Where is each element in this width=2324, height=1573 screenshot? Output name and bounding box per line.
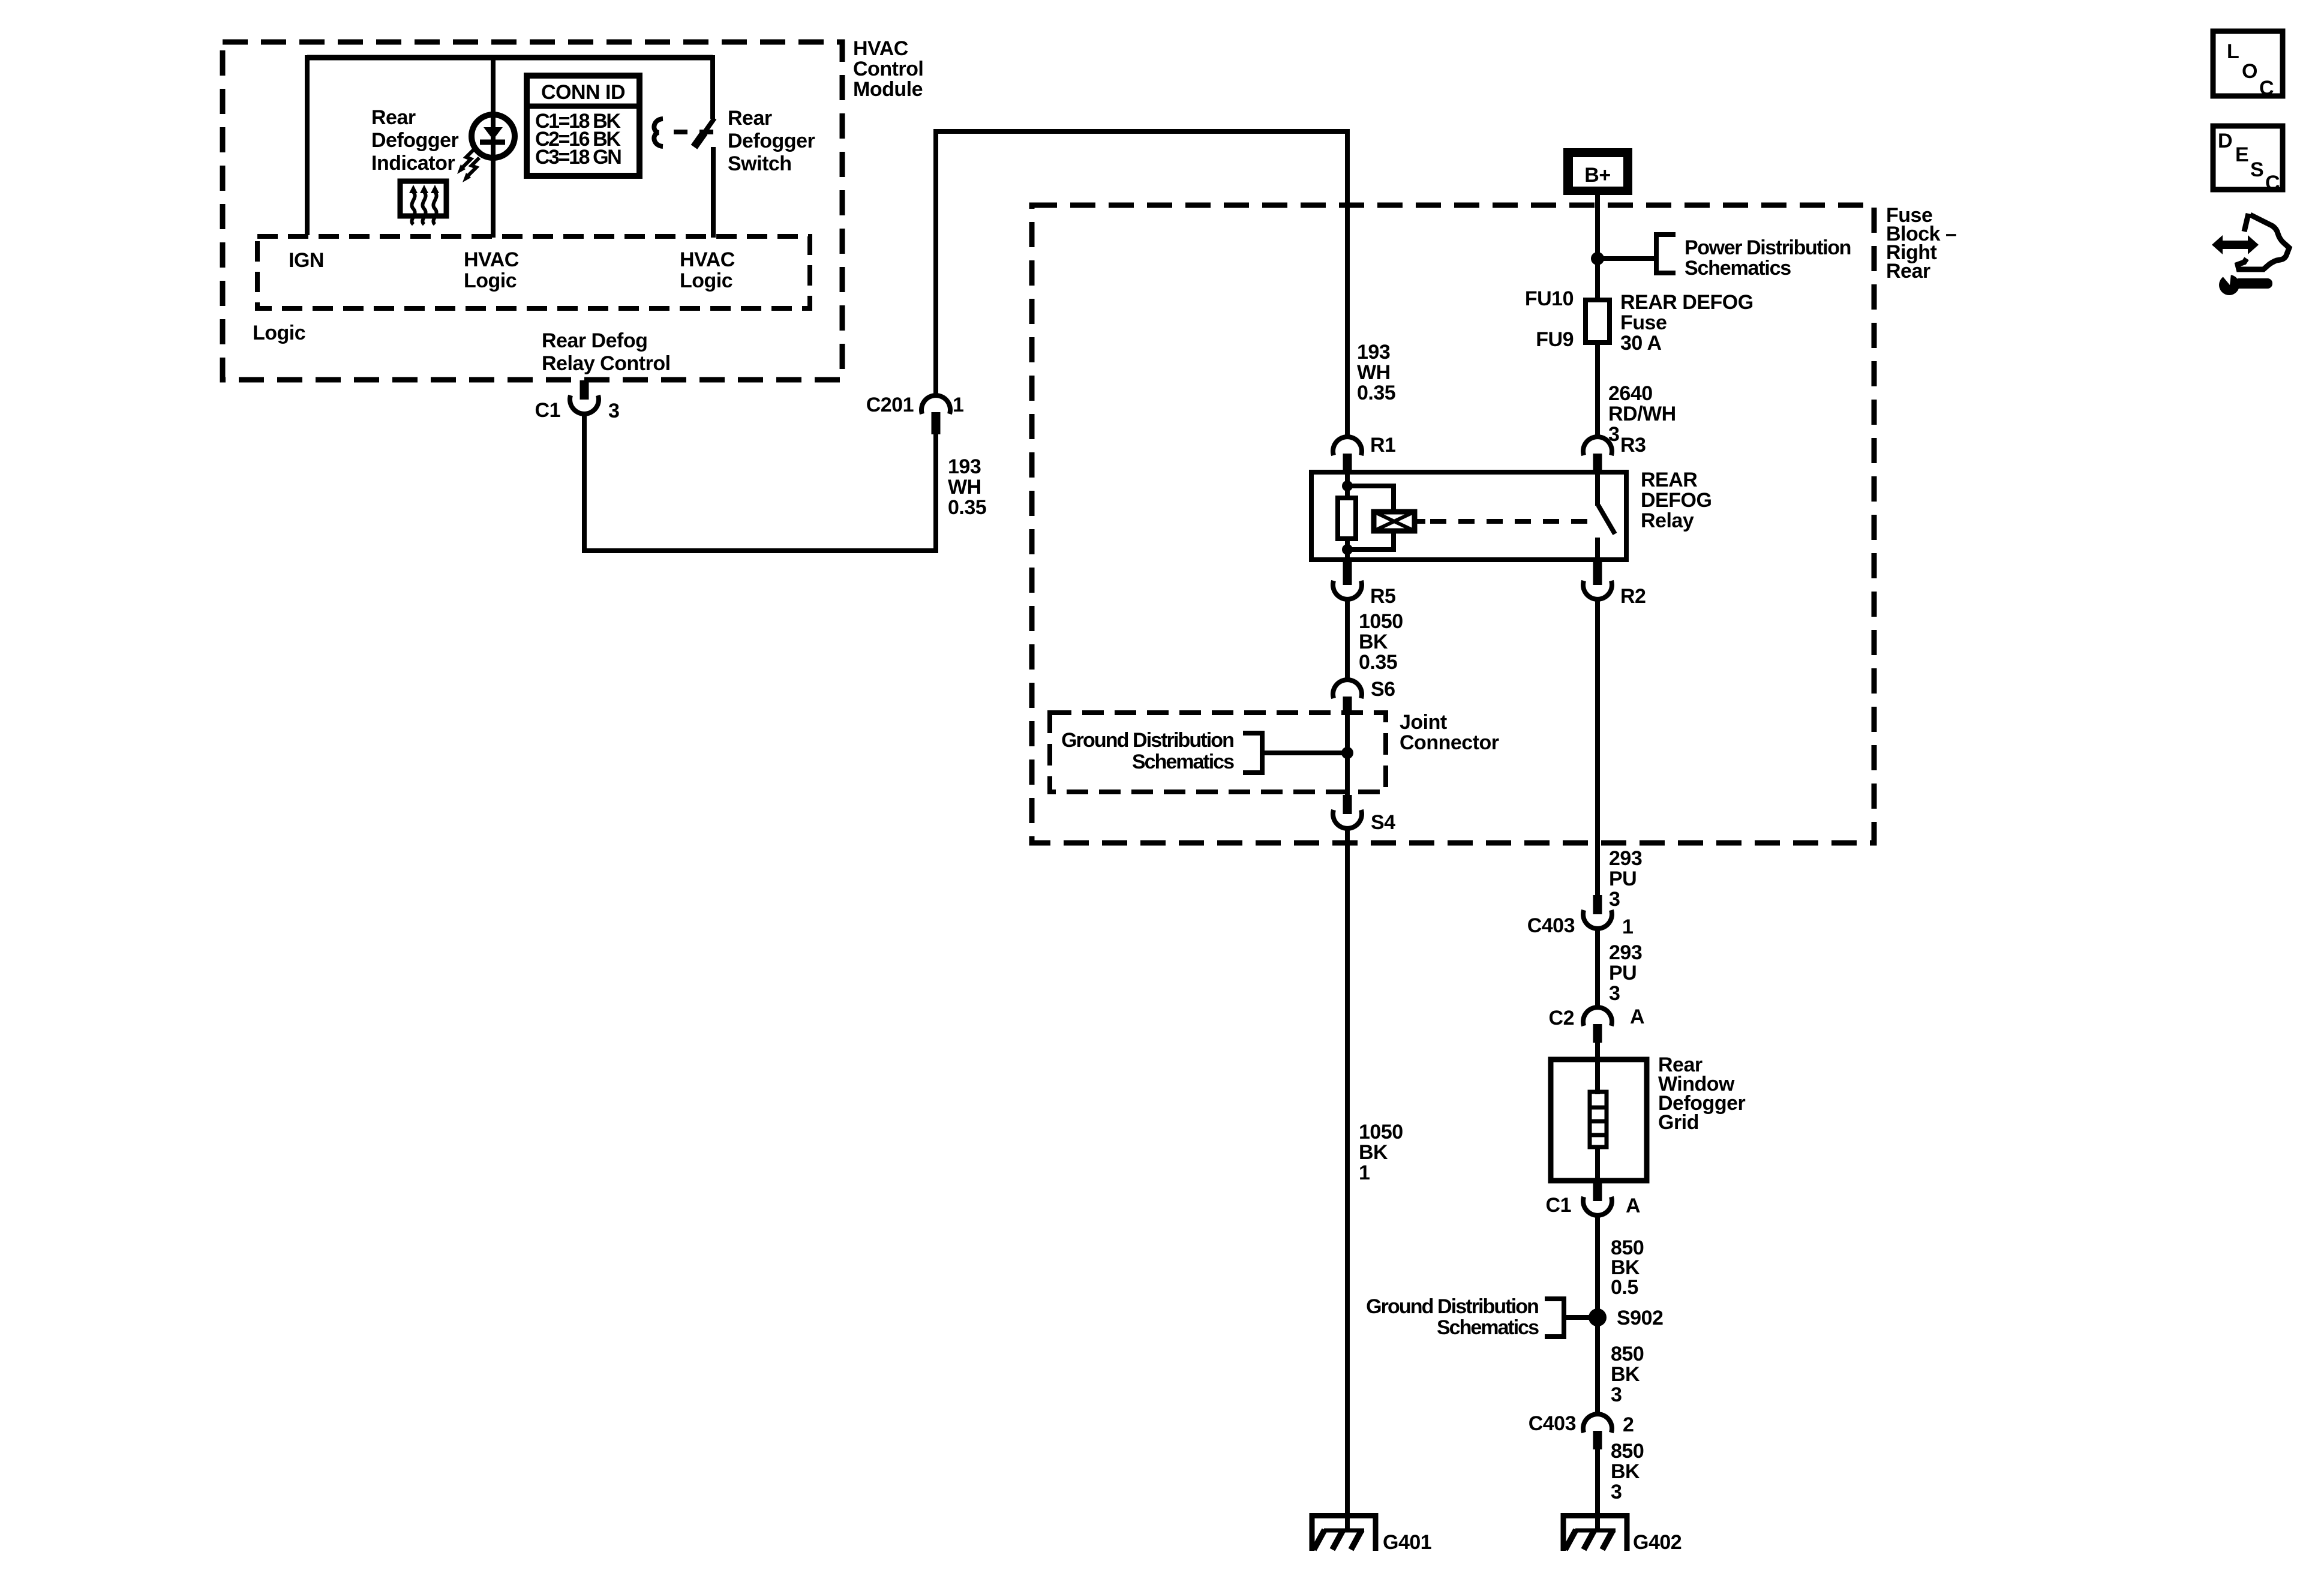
- svg-text:S: S: [2250, 158, 2263, 181]
- connector S4: [1343, 795, 1352, 814]
- svg-text:R3: R3: [1620, 434, 1646, 457]
- switch lever: [703, 118, 714, 134]
- svg-text:IGN: IGN: [289, 249, 324, 272]
- svg-text:BK: BK: [1611, 1460, 1640, 1483]
- svg-text:E: E: [2235, 143, 2248, 166]
- wire: top bus inside module: [307, 55, 713, 61]
- HVAC Control Module dashed box: [223, 42, 842, 380]
- connector C403 pin 1: [1593, 895, 1602, 914]
- defogger grid icon: [400, 181, 446, 216]
- svg-text:G402: G402: [1633, 1531, 1682, 1554]
- wire: 193 WH from C1: [582, 414, 587, 551]
- svg-text:A: A: [1630, 1005, 1644, 1028]
- svg-text:Relay Control: Relay Control: [542, 352, 671, 375]
- svg-text:1: 1: [1622, 915, 1633, 938]
- svg-text:HVAC: HVAC: [680, 248, 735, 271]
- CONN ID table: [527, 76, 639, 176]
- coil parallel branch wires: [1347, 484, 1394, 488]
- svg-text:1: 1: [953, 394, 963, 416]
- svg-text:REAR: REAR: [1641, 469, 1697, 491]
- wire: B+ down to fuse: [1595, 195, 1600, 300]
- svg-text:Defogger: Defogger: [371, 129, 459, 152]
- svg-text:FU10: FU10: [1525, 287, 1574, 310]
- LOC icon: [2213, 31, 2283, 96]
- connector R1: [1333, 437, 1362, 455]
- svg-text:C1: C1: [1546, 1194, 1571, 1217]
- svg-text:HVAC: HVAC: [464, 248, 519, 271]
- svg-text:PU: PU: [1609, 867, 1637, 890]
- relay contact arm: [1595, 473, 1600, 506]
- DESC icon: [2213, 126, 2283, 190]
- svg-text:DEFOG: DEFOG: [1641, 489, 1712, 512]
- svg-text:L: L: [2227, 40, 2239, 63]
- wire: fuse to R3: [1595, 343, 1600, 438]
- svg-text:Ground Distribution: Ground Distribution: [1366, 1295, 1538, 1318]
- svg-text:B+: B+: [1584, 164, 1610, 187]
- svg-text:BK: BK: [1359, 1141, 1388, 1164]
- svg-text:Logic: Logic: [253, 322, 305, 344]
- svg-text:S902: S902: [1617, 1307, 1663, 1329]
- wire: S902 to C403 pin 2: [1595, 1317, 1600, 1415]
- svg-text:Control: Control: [853, 58, 923, 80]
- wire: S4 down to G401: [1345, 828, 1350, 1531]
- svg-text:HVAC: HVAC: [853, 37, 908, 60]
- svg-text:Rear: Rear: [728, 107, 772, 130]
- svg-text:3: 3: [608, 400, 619, 422]
- svg-text:O: O: [2242, 60, 2257, 83]
- svg-text:293: 293: [1609, 941, 1642, 964]
- svg-text:Rear: Rear: [371, 106, 416, 129]
- svg-text:293: 293: [1609, 847, 1642, 870]
- wire: C403 to G402: [1595, 1449, 1600, 1531]
- svg-text:0.35: 0.35: [1357, 382, 1395, 404]
- switch actuator symbol: [654, 119, 663, 146]
- svg-text:WH: WH: [1357, 361, 1391, 384]
- ground G402: [1561, 1513, 1629, 1518]
- svg-text:G401: G401: [1383, 1531, 1431, 1554]
- svg-text:REAR DEFOG: REAR DEFOG: [1620, 291, 1753, 314]
- car navigation icon: [2212, 235, 2259, 254]
- ground G401: [1310, 1513, 1378, 1518]
- wire: R2 down to C403: [1595, 599, 1600, 896]
- svg-text:R2: R2: [1620, 585, 1646, 608]
- connector R2: [1593, 560, 1602, 585]
- wire: horizontal run to C201: [582, 548, 938, 553]
- splice S902: [1589, 1308, 1607, 1326]
- svg-text:Schematics: Schematics: [1685, 257, 1791, 280]
- svg-text:D: D: [2218, 130, 2232, 152]
- svg-text:Switch: Switch: [728, 152, 792, 175]
- svg-text:0.35: 0.35: [948, 496, 986, 519]
- relay coil box with X: [1374, 512, 1415, 531]
- svg-text:2: 2: [1623, 1413, 1634, 1436]
- Fuse Block - Right Rear dashed box: [1032, 205, 1874, 843]
- connector S6: [1333, 680, 1362, 698]
- svg-text:0.35: 0.35: [1359, 651, 1397, 674]
- svg-text:193: 193: [1357, 341, 1390, 364]
- svg-text:Indicator: Indicator: [371, 152, 455, 175]
- linkage from coil to contacts: [1415, 519, 1425, 524]
- svg-text:Rear Defog: Rear Defog: [542, 329, 647, 352]
- svg-text:BK: BK: [1359, 631, 1388, 653]
- svg-text:Joint: Joint: [1400, 711, 1447, 734]
- Rear Defogger Switch: [710, 55, 715, 119]
- svg-text:Logic: Logic: [464, 269, 517, 292]
- wire into grid: [1595, 1043, 1600, 1062]
- wire: C1 to S902: [1595, 1215, 1600, 1311]
- REAR DEFOG Relay box: [1311, 472, 1626, 560]
- connector C201 pin 1: [921, 395, 950, 414]
- svg-text:3: 3: [1611, 1481, 1622, 1503]
- node to Power Distribution: [1591, 252, 1604, 265]
- svg-text:PU: PU: [1609, 962, 1637, 984]
- svg-text:R5: R5: [1370, 585, 1395, 608]
- wire: IGN drop: [305, 55, 310, 235]
- svg-text:Module: Module: [853, 78, 923, 101]
- svg-text:3: 3: [1609, 982, 1620, 1005]
- Rear Window Defogger Grid box: [1551, 1059, 1647, 1181]
- connector R3: [1583, 437, 1612, 455]
- svg-text:Defogger: Defogger: [728, 130, 815, 152]
- svg-text:R1: R1: [1370, 434, 1395, 457]
- wrench icon: [2219, 275, 2239, 295]
- svg-text:1: 1: [1359, 1161, 1370, 1184]
- connector C1 pin A (grid): [1593, 1181, 1602, 1201]
- svg-text:WH: WH: [948, 476, 981, 499]
- svg-text:A: A: [1626, 1194, 1640, 1217]
- wire: R5 to S6, 1050 BK 0.35: [1345, 599, 1350, 680]
- svg-text:C3=18 GN: C3=18 GN: [535, 146, 621, 169]
- connector C403 pin 2: [1583, 1414, 1612, 1433]
- svg-text:Ground Distribution: Ground Distribution: [1061, 729, 1233, 752]
- svg-text:S6: S6: [1371, 678, 1395, 701]
- switch linkage dashes: [674, 130, 714, 134]
- svg-text:C2: C2: [1549, 1007, 1574, 1029]
- svg-text:C: C: [2259, 77, 2274, 100]
- svg-text:C1: C1: [535, 399, 560, 422]
- svg-text:3: 3: [1609, 888, 1620, 911]
- connector C2 pin A: [1583, 1007, 1612, 1026]
- B+ power feed: [1563, 148, 1632, 195]
- svg-text:1050: 1050: [1359, 1121, 1403, 1143]
- svg-text:1050: 1050: [1359, 610, 1403, 633]
- svg-text:C: C: [2265, 172, 2280, 194]
- fuse FU10/FU9 REAR DEFOG 30A: [1586, 300, 1610, 343]
- svg-text:0.5: 0.5: [1611, 1276, 1638, 1299]
- svg-text:RD/WH: RD/WH: [1608, 403, 1676, 425]
- wire: LED branch drop: [491, 55, 496, 238]
- LED light arrows: [463, 149, 474, 167]
- svg-text:Relay: Relay: [1641, 509, 1694, 532]
- inner Logic dashed box: [257, 236, 810, 308]
- bracket to Ground Distribution Schematics: [1243, 733, 1262, 773]
- svg-text:193: 193: [948, 455, 981, 478]
- svg-text:S4: S4: [1371, 811, 1395, 834]
- svg-text:Schematics: Schematics: [1437, 1316, 1539, 1339]
- grid element: [1595, 1059, 1600, 1094]
- relay coil branch: [1345, 473, 1350, 499]
- connector R5: [1343, 560, 1352, 585]
- svg-text:2640: 2640: [1608, 382, 1653, 405]
- svg-text:850: 850: [1611, 1440, 1644, 1463]
- svg-text:Fuse: Fuse: [1620, 311, 1667, 334]
- wire: up to C201: [933, 434, 938, 553]
- svg-text:Schematics: Schematics: [1132, 751, 1234, 773]
- connector C1 pin 3 (HVAC module): [580, 380, 589, 400]
- LED indicator (Rear Defogger Indicator): [472, 115, 515, 158]
- svg-text:FU9: FU9: [1536, 328, 1574, 351]
- svg-text:Rear: Rear: [1886, 260, 1930, 283]
- switch lower contact wire: [711, 147, 716, 238]
- coil resistor: [1338, 498, 1356, 539]
- bracket to Power Distribution Schematics: [1656, 235, 1676, 273]
- svg-text:Grid: Grid: [1658, 1111, 1699, 1134]
- Joint Connector dashed box: [1050, 713, 1386, 792]
- wire: C201 up and over to relay R1: [933, 131, 938, 395]
- svg-text:3: 3: [1611, 1383, 1622, 1406]
- svg-text:Connector: Connector: [1400, 731, 1499, 754]
- svg-text:C403: C403: [1527, 914, 1575, 937]
- wire: C403 to C2: [1595, 929, 1600, 1008]
- svg-text:C201: C201: [866, 394, 914, 416]
- bracket to Ground Distribution Schematics: [1545, 1299, 1564, 1337]
- svg-text:BK: BK: [1611, 1363, 1640, 1386]
- svg-text:Logic: Logic: [680, 269, 732, 292]
- wire through joint connector: [1345, 713, 1350, 797]
- svg-text:Power Distribution: Power Distribution: [1685, 236, 1851, 259]
- svg-text:C403: C403: [1529, 1412, 1576, 1435]
- svg-text:850: 850: [1611, 1343, 1644, 1365]
- svg-text:30 A: 30 A: [1620, 332, 1662, 355]
- svg-text:CONN ID: CONN ID: [541, 81, 625, 104]
